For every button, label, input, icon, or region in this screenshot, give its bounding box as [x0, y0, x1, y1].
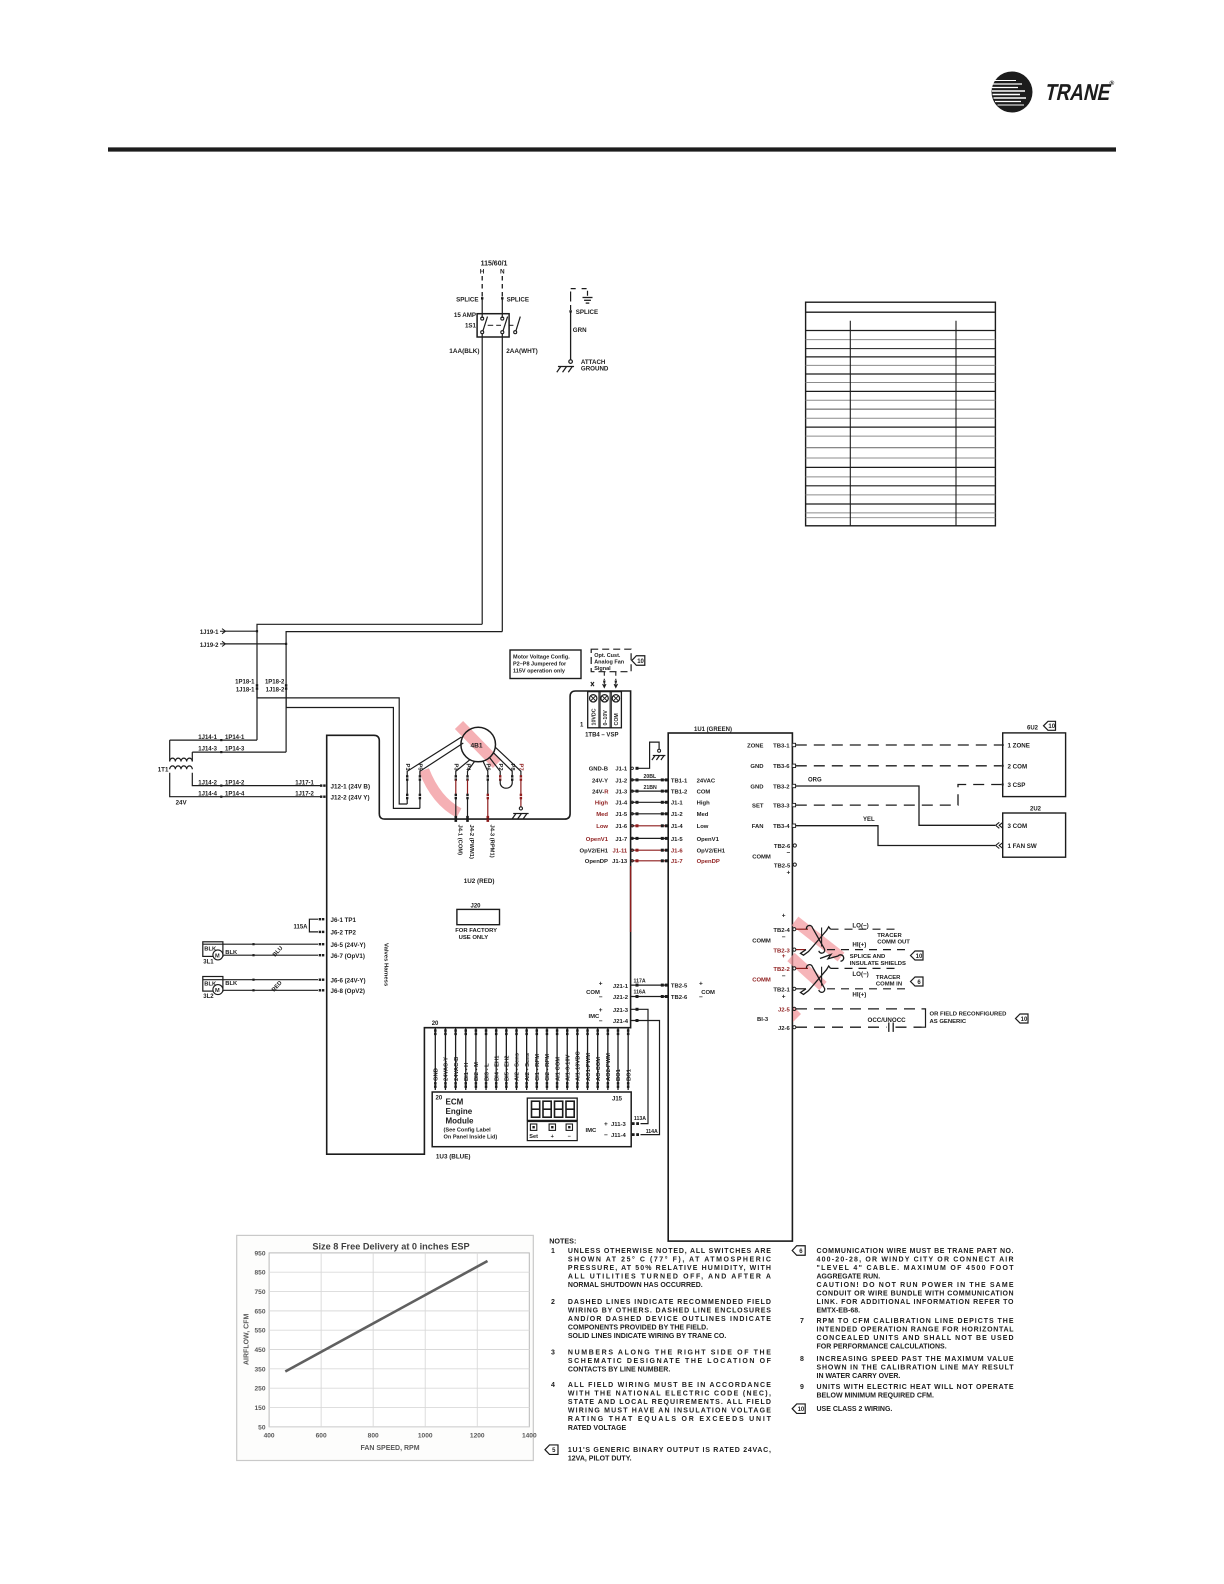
svg-text:N: N [500, 269, 505, 276]
svg-text:J11-4: J11-4 [611, 1133, 626, 1139]
svg-text:J1-4: J1-4 [671, 824, 684, 830]
svg-text:24VAC-Y: 24VAC-Y [444, 1057, 450, 1081]
svg-text:350: 350 [254, 1366, 265, 1373]
motor plug P8 [493, 753, 512, 777]
svg-text:J21-2: J21-2 [613, 995, 629, 1001]
svg-text:Set: Set [529, 1134, 538, 1140]
svg-text:OpenDP: OpenDP [585, 859, 608, 865]
svg-text:J21-4: J21-4 [613, 1019, 629, 1025]
svg-text:950: 950 [254, 1250, 265, 1257]
svg-text:TB2-6: TB2-6 [671, 995, 688, 1001]
svg-text:BLK: BLK [225, 981, 238, 987]
svg-text:BO1: BO1 [626, 1068, 632, 1081]
svg-text:FAN SPEED, RPM: FAN SPEED, RPM [360, 1445, 419, 1452]
svg-text:Module: Module [446, 1117, 475, 1126]
svg-text:20: 20 [436, 1096, 443, 1102]
svg-text:3: 3 [551, 1350, 555, 1357]
arrows into terminals [591, 682, 594, 686]
strip wire AO-COM [597, 1028, 599, 1090]
svg-text:1P14-4: 1P14-4 [225, 791, 245, 797]
svg-text:113A: 113A [634, 1116, 646, 1122]
strip wire AO2-PWM [607, 1028, 609, 1090]
svg-text:Valves Harness: Valves Harness [383, 943, 389, 987]
twisted pair comm out [796, 928, 808, 930]
svg-text:High: High [697, 801, 710, 807]
svg-text:Motor Voltage Config.: Motor Voltage Config. [513, 655, 570, 661]
svg-text:GRN: GRN [573, 327, 587, 334]
motor plug P7 [495, 747, 521, 776]
svg-text:1U1'S GENERIC BINARY OUTPUT IS: 1U1'S GENERIC BINARY OUTPUT IS RATED 24V… [568, 1447, 771, 1454]
wire H dashed lead [481, 276, 483, 297]
ground stub from J1-1 [637, 742, 659, 768]
svg-text:12VA, PILOT DUTY.: 12VA, PILOT DUTY. [568, 1456, 632, 1463]
svg-text:RPM TO CFM CALIBRATION LINE DE: RPM TO CFM CALIBRATION LINE DEPICTS THE [817, 1318, 1014, 1325]
strip wire CI2 - RPM [546, 1028, 548, 1090]
svg-text:(See Config Label: (See Config Label [444, 1128, 492, 1134]
svg-text:INTENDED OPERATION RANGE FOR H: INTENDED OPERATION RANGE FOR HORIZONTAL [817, 1326, 1015, 1333]
svg-text:J1-2: J1-2 [615, 778, 628, 784]
buttons set + - [527, 1122, 577, 1141]
motor plug P1 [407, 737, 461, 777]
svg-text:AS GENERIC: AS GENERIC [930, 1019, 967, 1025]
strip wire BI4 - EH1 [495, 1028, 497, 1090]
dashed HI(+) comm in [827, 988, 906, 990]
svg-text:1TB4 – VSP: 1TB4 – VSP [585, 733, 618, 739]
strip wire CI1 - RPM [536, 1028, 538, 1090]
svg-text:1: 1 [551, 1248, 555, 1255]
header rule [108, 147, 1116, 151]
svg-text:Signal: Signal [594, 666, 611, 672]
svg-text:115/60/1: 115/60/1 [481, 261, 508, 268]
svg-text:1P14-1: 1P14-1 [225, 735, 245, 741]
svg-text:J21-3: J21-3 [613, 1008, 629, 1014]
terminal block 1TB4 [588, 692, 622, 728]
svg-text:H: H [480, 269, 485, 276]
svg-text:COMM IN: COMM IN [876, 982, 902, 988]
svg-text:−: − [599, 1018, 603, 1025]
motor plug P4 [468, 762, 475, 777]
svg-text:2 COM: 2 COM [1008, 763, 1028, 770]
svg-text:850: 850 [254, 1270, 265, 1277]
svg-text:BO1: BO1 [616, 1068, 622, 1081]
svg-text:DASHED LINES INDICATE RECOMMEN: DASHED LINES INDICATE RECOMMENDED FIELD [568, 1299, 771, 1306]
pink highlight arc swath [424, 770, 459, 813]
svg-text:BI1 - H: BI1 - H [464, 1063, 470, 1081]
svg-text:J6-8 (OpV2): J6-8 (OpV2) [331, 988, 365, 995]
occ/unocc contact [888, 1023, 890, 1032]
note 10 flag [792, 1404, 805, 1414]
svg-text:10: 10 [637, 659, 644, 665]
pink mark J2-5 [793, 1006, 801, 1022]
svg-text:AI1-10VDC: AI1-10VDC [576, 1051, 582, 1081]
svg-text:1J14-2: 1J14-2 [198, 780, 217, 786]
svg-text:SOLID LINES INDICATE WIRING BY: SOLID LINES INDICATE WIRING BY TRANE CO. [568, 1333, 726, 1340]
svg-text:+: + [604, 1121, 608, 1128]
svg-text:SPLICE: SPLICE [576, 309, 598, 316]
svg-text:J15: J15 [612, 1097, 623, 1103]
svg-text:P2–P8 Jumpered for: P2–P8 Jumpered for [513, 662, 567, 668]
svg-text:GND-B: GND-B [589, 767, 608, 773]
svg-text:INSULATE SHIELDS: INSULATE SHIELDS [850, 961, 906, 967]
svg-text:750: 750 [254, 1289, 265, 1296]
motor 4B1 [461, 727, 496, 762]
svg-text:YEL: YEL [863, 817, 875, 823]
svg-text:SHOWN IN THE CALIBRATION LINE: SHOWN IN THE CALIBRATION LINE MAY RESULT [817, 1364, 1015, 1371]
dashed stubs to terminals [603, 672, 605, 680]
bracket [922, 1009, 926, 1027]
wire 3L2 24V-Y [203, 979, 318, 981]
strip wire AI1 COM [556, 1028, 558, 1090]
svg-text:OR FIELD RECONFIGURED: OR FIELD RECONFIGURED [930, 1012, 1007, 1018]
earth ground symbol [583, 297, 593, 299]
svg-text:21BN: 21BN [644, 785, 658, 791]
svg-text:J6-2 TP2: J6-2 TP2 [331, 930, 357, 937]
svg-text:High: High [595, 801, 608, 807]
note box motor voltage config [510, 650, 581, 679]
chart plot area [269, 1253, 529, 1427]
svg-text:M: M [215, 988, 220, 994]
svg-text:IN WATER CARRY OVER.: IN WATER CARRY OVER. [817, 1373, 901, 1380]
svg-text:6U2: 6U2 [1027, 726, 1039, 732]
svg-text:J2-6: J2-6 [778, 1026, 791, 1032]
svg-text:WIRING BY OTHERS. DASHED LINE: WIRING BY OTHERS. DASHED LINE ENCLOSURES [568, 1308, 771, 1315]
strip wire AI2 - Sens [526, 1028, 528, 1090]
strip wire BO1 [617, 1028, 619, 1090]
note 6 flag [792, 1246, 805, 1256]
svg-text:9: 9 [800, 1384, 804, 1391]
svg-text:1J18-2: 1J18-2 [266, 688, 285, 694]
branch wire to P5 [286, 708, 420, 809]
strip wire BI3 - L [485, 1028, 487, 1090]
dashed LO(-) comm in [831, 967, 899, 969]
svg-text:650: 650 [254, 1308, 265, 1315]
motor plug P3 [456, 760, 470, 777]
svg-text:1 FAN SW: 1 FAN SW [1008, 843, 1037, 850]
twisted pair comm in [796, 967, 808, 969]
svg-text:600: 600 [316, 1433, 327, 1440]
wire N to switch [501, 298, 503, 318]
svg-text:J1-1: J1-1 [671, 801, 684, 807]
reference table [806, 302, 996, 526]
svg-text:7: 7 [800, 1318, 804, 1325]
svg-text:TB3-3: TB3-3 [773, 803, 790, 809]
svg-text:1AA(BLK): 1AA(BLK) [449, 348, 479, 355]
svg-text:24V-: 24V- [592, 790, 604, 796]
svg-text:−: − [787, 850, 791, 857]
pink swath comm out [795, 921, 841, 957]
connector 2U2 [1003, 813, 1066, 857]
svg-text:"LEVEL 4" CABLE. MAXIMUM OF 4: "LEVEL 4" CABLE. MAXIMUM OF 4500 FOOT [817, 1265, 1015, 1272]
chart gridlines [269, 1253, 529, 1427]
svg-text:J4-1 (COM): J4-1 (COM) [456, 825, 462, 856]
svg-text:TRACER: TRACER [876, 975, 901, 981]
svg-text:AO-COM: AO-COM [596, 1057, 602, 1081]
svg-text:J1-4: J1-4 [615, 801, 628, 807]
wire 1AA run to x257 [257, 624, 482, 698]
svg-text:BI2 - M: BI2 - M [474, 1062, 480, 1081]
svg-text:OpV2/EH1: OpV2/EH1 [580, 849, 609, 855]
svg-text:800: 800 [368, 1433, 379, 1440]
svg-text:1J17-2: 1J17-2 [295, 791, 314, 797]
splice dot H [481, 297, 483, 299]
wires P1 P5 to feed [406, 798, 408, 804]
svg-text:1P14-2: 1P14-2 [225, 780, 245, 786]
svg-text:COMMUNICATION WIRE MUST BE TRA: COMMUNICATION WIRE MUST BE TRANE PART NO… [817, 1248, 1014, 1255]
connector 6U2 [1003, 733, 1066, 797]
svg-text:HI(+): HI(+) [852, 991, 866, 998]
svg-text:8: 8 [800, 1356, 804, 1363]
svg-text:2: 2 [551, 1299, 555, 1306]
strip wire BI5 - EH2 [505, 1028, 507, 1090]
attach ground terminal [569, 360, 573, 364]
svg-text:LO(−): LO(−) [852, 971, 868, 978]
svg-text:LINK. FOR ADDITIONAL INFORMAT: LINK. FOR ADDITIONAL INFORMATION REFER T… [817, 1299, 1015, 1306]
svg-text:CONTACTS BY LINE NUMBER.: CONTACTS BY LINE NUMBER. [568, 1367, 670, 1374]
branch wire to P1 [257, 698, 407, 804]
svg-text:USE ONLY: USE ONLY [459, 935, 489, 941]
svg-text:TB2-5: TB2-5 [671, 984, 688, 990]
svg-text:AI1 COM: AI1 COM [555, 1057, 561, 1081]
strip wire AI2 - Sens [516, 1028, 518, 1090]
svg-text:20BL: 20BL [644, 774, 658, 780]
wire GRN [570, 311, 572, 360]
svg-text:AO2-PWM: AO2-PWM [606, 1053, 612, 1081]
dashed wire GND TB3-6 to 6U2 [796, 765, 1002, 767]
svg-text:J6-6 (24V-Y): J6-6 (24V-Y) [331, 977, 366, 984]
strip wire AI1-0-10V [566, 1028, 568, 1090]
svg-text:4B1: 4B1 [471, 743, 483, 750]
svg-text:TB2-5: TB2-5 [774, 863, 791, 869]
svg-text:1U1 (GREEN): 1U1 (GREEN) [694, 727, 732, 733]
svg-text:GND: GND [750, 784, 763, 790]
valve 3L2 [203, 977, 223, 992]
svg-text:10: 10 [1048, 724, 1055, 730]
svg-text:TRANE: TRANE [1043, 80, 1114, 106]
svg-text:3 CSP: 3 CSP [1008, 782, 1026, 789]
svg-text:10: 10 [1021, 1017, 1028, 1023]
svg-text:3L1: 3L1 [203, 959, 214, 965]
svg-text:BI3 - L: BI3 - L [484, 1063, 490, 1081]
svg-text:FOR FACTORY: FOR FACTORY [455, 928, 497, 934]
svg-text:J1-7: J1-7 [615, 837, 628, 843]
svg-text:SPLICE AND: SPLICE AND [850, 954, 885, 960]
board 1U1 (GREEN) [668, 733, 792, 1241]
svg-text:15 AMP: 15 AMP [454, 312, 476, 319]
svg-text:COMM OUT: COMM OUT [877, 940, 910, 946]
svg-text:TB3-2: TB3-2 [773, 784, 790, 790]
seven segment display [527, 1098, 577, 1120]
module ECM 1U3 [432, 1092, 631, 1147]
motor plug P2 [489, 757, 500, 776]
svg-text:Low: Low [596, 824, 608, 830]
svg-text:CAUTION! DO NOT RUN POWER IN: CAUTION! DO NOT RUN POWER IN THE SAME [817, 1282, 1014, 1289]
dashed LO(-) comm out [831, 928, 899, 930]
strip wire BI2 - M [475, 1028, 477, 1090]
chart calibration line [285, 1261, 487, 1372]
dashed wire J2-5 [796, 1008, 922, 1010]
svg-text:HI(+): HI(+) [852, 942, 866, 949]
wire H to switch [481, 298, 483, 318]
svg-text:P6: P6 [485, 764, 491, 772]
svg-text:1U3 (BLUE): 1U3 (BLUE) [436, 1154, 471, 1161]
svg-text:P1: P1 [404, 764, 410, 772]
svg-text:1T1: 1T1 [158, 766, 169, 773]
svg-text:TB1-2: TB1-2 [671, 790, 688, 796]
svg-text:J6-5 (24V-Y): J6-5 (24V-Y) [331, 942, 366, 949]
svg-text:ALL FIELD WIRING MUST BE IN AC: ALL FIELD WIRING MUST BE IN ACCORDANCE [568, 1382, 771, 1389]
wire 3L1 24V-Y [203, 943, 318, 945]
svg-text:TB3-4: TB3-4 [773, 824, 790, 830]
wire 3L1 OpV1 BLU [223, 954, 318, 956]
svg-text:J1-1: J1-1 [615, 767, 628, 773]
svg-text:CONDUIT OR WIRE BUNDLE WITH CO: CONDUIT OR WIRE BUNDLE WITH COMMUNICATIO… [817, 1291, 1014, 1298]
svg-text:ECM: ECM [446, 1098, 464, 1107]
svg-text:TB3-6: TB3-6 [773, 764, 790, 770]
svg-text:10: 10 [916, 954, 923, 960]
svg-text:BI5 - EH2: BI5 - EH2 [505, 1056, 511, 1081]
svg-text:COMM: COMM [752, 938, 771, 944]
motor plug P5 [420, 743, 463, 777]
jumper P2-P8 [499, 775, 501, 777]
svg-text:J6-1 TP1: J6-1 TP1 [331, 917, 357, 924]
svg-text:GND: GND [750, 764, 763, 770]
svg-text:1J19-2: 1J19-2 [200, 643, 219, 649]
svg-text:+: + [782, 913, 786, 920]
svg-text:3 COM: 3 COM [1008, 823, 1028, 830]
wire 3L2 OpV2 RED [223, 989, 318, 991]
switch 1S1 pole 3 (external) [509, 324, 513, 326]
svg-text:J4-3 (RPM1): J4-3 (RPM1) [488, 825, 494, 858]
svg-text:1J17-1: 1J17-1 [295, 780, 314, 786]
svg-text:J12-1 (24V B): J12-1 (24V B) [331, 783, 371, 790]
svg-text:IMC: IMC [585, 1128, 597, 1134]
svg-text:1400: 1400 [522, 1433, 537, 1440]
svg-text:P7: P7 [518, 764, 524, 771]
svg-text:On Panel Inside Lid): On Panel Inside Lid) [444, 1135, 498, 1141]
svg-text:PRESSURE, AT 50% RELATIVE HUMI: PRESSURE, AT 50% RELATIVE HUMIDITY, WITH [568, 1265, 771, 1272]
svg-text:+: + [782, 953, 786, 960]
svg-text:250: 250 [254, 1386, 265, 1393]
svg-text:116A: 116A [634, 990, 646, 996]
svg-text:COMPONENTS PROVIDED BY THE FIE: COMPONENTS PROVIDED BY THE FIELD. [568, 1325, 708, 1332]
svg-text:J20: J20 [471, 904, 482, 910]
pink swath comm in [791, 957, 823, 986]
svg-text:3L2: 3L2 [203, 994, 214, 1000]
splice dot N [501, 297, 503, 299]
chevrons into 2U2 [996, 822, 1003, 828]
op board 1U2 outline [327, 691, 631, 1154]
svg-text:J6-7 (OpV1): J6-7 (OpV1) [331, 953, 365, 960]
svg-text:J1-6: J1-6 [615, 824, 628, 830]
svg-text:FAN: FAN [752, 824, 764, 830]
svg-text:1J14-3: 1J14-3 [198, 747, 217, 753]
svg-text:+: + [782, 994, 786, 1001]
svg-text:400-20-28, OR WINDY CITY OR CO: 400-20-28, OR WINDY CITY OR CONNECT AIR [817, 1256, 1014, 1263]
svg-text:AO1-PWM: AO1-PWM [586, 1053, 592, 1081]
svg-text:INCREASING SPEED PAST THE MAXI: INCREASING SPEED PAST THE MAXIMUM VALUE [817, 1356, 1014, 1363]
strip wire BO1 [627, 1028, 629, 1090]
svg-text:J4-2 (PWM1): J4-2 (PWM1) [468, 825, 474, 860]
svg-text:1U2 (RED): 1U2 (RED) [464, 878, 495, 885]
svg-text:+: + [599, 980, 603, 987]
svg-text:Med: Med [596, 812, 608, 818]
svg-text:AI1-0-10V: AI1-0-10V [565, 1054, 571, 1081]
svg-text:COMM: COMM [752, 978, 771, 984]
switch 1S1 pole 1 [481, 317, 484, 320]
svg-text:+: + [599, 1007, 603, 1014]
svg-text:1 ZONE: 1 ZONE [1008, 743, 1030, 750]
svg-text:115A: 115A [293, 924, 308, 930]
strip wire AO1-PWM [587, 1028, 589, 1090]
svg-text:ALL UTILITIES TURNED OFF, AND: ALL UTILITIES TURNED OFF, AND AFTER A [568, 1274, 771, 1281]
svg-text:J12-2 (24V Y): J12-2 (24V Y) [331, 795, 370, 802]
svg-text:SHOWN AT 25° C (77° F), AT ATM: SHOWN AT 25° C (77° F), AT ATMOSPHERIC [568, 1256, 771, 1264]
svg-text:2U2: 2U2 [1030, 807, 1042, 813]
svg-text:TB3-1: TB3-1 [773, 743, 790, 749]
svg-text:SPLICE: SPLICE [456, 296, 478, 303]
svg-text:10VDC: 10VDC [592, 708, 598, 725]
dashed wire SET TB3-3 to CSP [796, 785, 1002, 806]
svg-text:BI-3: BI-3 [757, 1017, 769, 1023]
svg-text:J1-5: J1-5 [671, 837, 684, 843]
svg-text:117A: 117A [634, 978, 646, 984]
svg-text:550: 550 [254, 1328, 265, 1335]
svg-text:1200: 1200 [470, 1433, 485, 1440]
svg-text:114A: 114A [646, 1129, 658, 1135]
svg-text:+: + [699, 980, 703, 987]
svg-text:10: 10 [798, 1407, 805, 1413]
svg-text:4: 4 [551, 1382, 555, 1389]
svg-text:−: − [599, 994, 603, 1001]
svg-text:24V-Y: 24V-Y [592, 778, 608, 784]
chart frame [237, 1235, 534, 1460]
wire N dashed lead [501, 276, 503, 297]
svg-text:TB1-1: TB1-1 [671, 778, 688, 784]
switch linkage dashes [488, 324, 494, 326]
strip wire AI1-10VDC [576, 1028, 578, 1090]
svg-text:M: M [215, 953, 220, 959]
svg-text:LO(−): LO(−) [852, 923, 868, 930]
svg-text:−: − [782, 973, 786, 980]
red marker on 1U2 edge [630, 866, 632, 932]
svg-text:J1-3: J1-3 [615, 790, 628, 796]
svg-text:UNITS WITH ELECTRIC HEAT WILL: UNITS WITH ELECTRIC HEAT WILL NOT OPERAT… [817, 1384, 1014, 1391]
svg-text:Med: Med [697, 812, 709, 818]
svg-text:NUMBERS ALONG THE RIGHT SIDE O: NUMBERS ALONG THE RIGHT SIDE OF THE [568, 1350, 771, 1357]
dashed box opt cust analog fan signal [591, 649, 631, 672]
svg-text:J1-7: J1-7 [671, 859, 684, 865]
ground splice dashed bracket [571, 289, 577, 297]
svg-text:1P18-2: 1P18-2 [265, 679, 285, 685]
svg-text:OpV2/EH1: OpV2/EH1 [697, 849, 726, 855]
svg-text:ZONE: ZONE [747, 743, 763, 749]
svg-text:P5: P5 [417, 764, 423, 772]
svg-text:EMTX-EB-68.: EMTX-EB-68. [817, 1308, 861, 1315]
svg-text:USE CLASS 2 WIRING.: USE CLASS 2 WIRING. [817, 1406, 893, 1413]
svg-text:BELOW MINIMUM REQUIRED CFM.: BELOW MINIMUM REQUIRED CFM. [817, 1393, 934, 1400]
svg-text:400: 400 [264, 1433, 275, 1440]
svg-text:1P14-3: 1P14-3 [225, 747, 245, 753]
svg-text:OCC/UNOCC: OCC/UNOCC [868, 1017, 907, 1024]
strip wire 24VAC-B [455, 1028, 457, 1090]
svg-text:24V: 24V [176, 800, 188, 807]
svg-text:GND: GND [434, 1068, 440, 1081]
svg-text:NORMAL SHUTDOWN HAS OCCURRED.: NORMAL SHUTDOWN HAS OCCURRED. [568, 1282, 703, 1289]
plug P7 to chassis ground [520, 798, 522, 807]
pink highlight motor swath [459, 725, 497, 764]
svg-text:WIRING MUST HAVE AN INSULATION: WIRING MUST HAVE AN INSULATION VOLTAGE [568, 1408, 771, 1415]
svg-text:COMM: COMM [752, 855, 771, 861]
